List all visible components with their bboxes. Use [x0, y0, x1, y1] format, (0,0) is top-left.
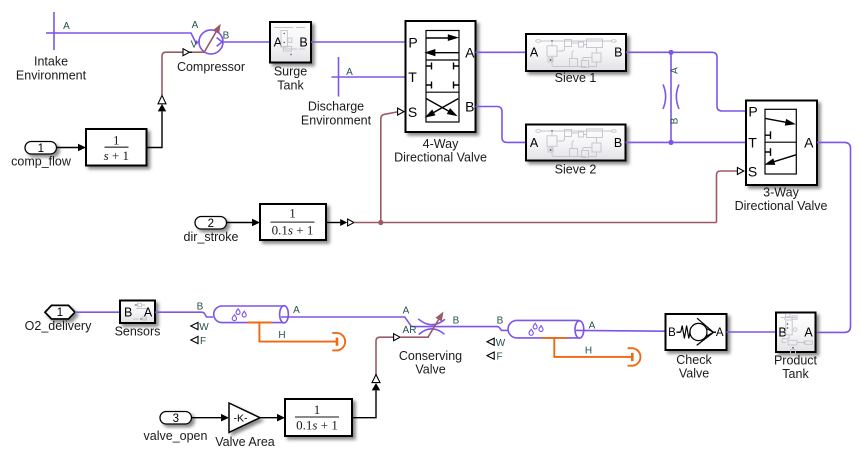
svg-text:1: 1: [57, 307, 63, 319]
thermal wire pipe 2 H: [542, 338, 632, 357]
svg-text:T: T: [408, 69, 417, 85]
conserving valve (variable orifice): [412, 312, 498, 338]
port W of pipe 1: [191, 322, 209, 333]
sieve 2 preview sketch: [536, 129, 617, 158]
port triangle on stroke signal: [348, 219, 354, 226]
svg-text:A: A: [403, 306, 410, 317]
port triangle at compressor V: [183, 49, 189, 56]
wire dir_stroke to transfer fcn: [227, 222, 254, 224]
orifice symbol on rail: [663, 85, 679, 110]
sieve 1 preview sketch: [536, 39, 617, 68]
product tank preview sketch: [781, 314, 813, 354]
inport 2 dir_stroke: [195, 217, 227, 231]
thermal cap 1: [332, 333, 345, 351]
gain Valve Area: [229, 403, 260, 432]
svg-text:1: 1: [314, 402, 321, 417]
wire Sensors A to pipe B: [155, 312, 213, 317]
svg-text:A: A: [192, 20, 199, 31]
wire discharge A to 4-way T: [332, 76, 406, 78]
port F of pipe 1: [191, 336, 206, 347]
svg-text:AR: AR: [403, 325, 417, 336]
svg-text:A: A: [804, 135, 814, 151]
port W of pipe 2: [487, 338, 506, 349]
svg-text:Surge: Surge: [274, 65, 307, 79]
wire gain to transfer fcn: [260, 417, 279, 419]
wire 3-way A to Product Tank A: [816, 142, 851, 332]
junction dot: [378, 220, 383, 225]
svg-text:Compressor: Compressor: [177, 60, 245, 74]
junction dot sieve2: [668, 140, 673, 145]
svg-text:B: B: [453, 316, 460, 327]
wire compressor B to Surge Tank A: [222, 41, 270, 43]
svg-text:3: 3: [173, 413, 179, 425]
wire comp_flow to transfer fcn: [57, 147, 80, 149]
compressor U? (Compressor): [177, 30, 245, 74]
svg-text:Tank: Tank: [782, 367, 809, 381]
wire stub into compressor: [192, 51, 205, 53]
svg-text:S: S: [748, 164, 757, 180]
svg-text:A: A: [144, 305, 153, 319]
svg-text:4-Way: 4-Way: [423, 137, 459, 151]
svg-text:dir_stroke: dir_stroke: [184, 230, 239, 244]
inport 1 comp_flow: [25, 142, 57, 156]
block Sensors: [120, 301, 155, 324]
svg-text:3-Way: 3-Way: [763, 186, 799, 200]
svg-text:A: A: [670, 67, 681, 74]
svg-text:A: A: [293, 305, 300, 316]
svg-text:Valve: Valve: [679, 367, 709, 381]
svg-text:Discharge: Discharge: [308, 100, 364, 114]
svg-text:Directional Valve: Directional Valve: [735, 199, 828, 213]
svg-text:B: B: [614, 46, 622, 60]
wire valve_open to gain: [192, 417, 223, 419]
svg-text:2: 2: [208, 218, 214, 230]
pipe 2 (moist air pipe): [508, 320, 584, 338]
reservoir Intake Environment: [16, 12, 87, 82]
wire transfer fcn to PS converter: [326, 222, 341, 224]
svg-text:Sieve 2: Sieve 2: [555, 163, 597, 177]
actuator arrow through compressor: [204, 24, 221, 53]
svg-text:comp_flow: comp_flow: [11, 155, 72, 169]
wire O2_delivery to Sensors B: [75, 311, 120, 313]
svg-text:1: 1: [289, 206, 296, 221]
svg-text:Product: Product: [774, 354, 818, 368]
block Check Valve: [666, 314, 727, 350]
transfer fcn (1/(0.1s+1)) lower: [285, 399, 352, 436]
pipe 1 (moist air pipe): [214, 306, 289, 323]
wire intake A to compressor: [60, 33, 200, 44]
wire 4-way B to Sieve 2 A: [476, 107, 527, 143]
svg-text:V: V: [191, 40, 198, 51]
svg-text:B: B: [124, 305, 132, 319]
wire pipe 2 A to Check Valve B: [576, 329, 666, 332]
outport 1 O2_delivery: [45, 305, 75, 319]
svg-text:B: B: [299, 36, 307, 50]
transfer fcn (1/(0.1s+1)) upper: [260, 204, 326, 240]
svg-text:Valve: Valve: [415, 363, 445, 377]
svg-text:Environment: Environment: [16, 68, 87, 82]
svg-text:s + 1: s + 1: [104, 148, 129, 163]
svg-text:B: B: [197, 302, 204, 313]
thermal wire pipe 1 H: [247, 323, 336, 342]
wire pipe 1 A to conserving valve A: [281, 317, 412, 327]
wire Surge Tank B to 4-way P: [311, 41, 406, 43]
svg-text:B: B: [614, 136, 622, 150]
wire transfer fcn to PS converter: [147, 112, 163, 148]
svg-text:valve_open: valve_open: [144, 429, 208, 443]
wire stub AR: [400, 336, 429, 338]
sensors preview sketch: [133, 303, 147, 320]
svg-text:1: 1: [113, 133, 120, 148]
svg-text:B: B: [223, 31, 230, 42]
svg-text:-K-: -K-: [234, 412, 249, 424]
physical signal wire dir stroke bus: [354, 222, 717, 224]
svg-text:A: A: [530, 46, 539, 60]
thermal cap 2: [628, 348, 641, 366]
port triangle at 3-way S: [737, 168, 743, 175]
wire Sieve 1 B to 3-way P: [626, 52, 746, 111]
svg-text:Sensors: Sensors: [115, 325, 161, 339]
svg-text:Conserving: Conserving: [399, 349, 462, 363]
svg-text:O2_delivery: O2_delivery: [25, 319, 92, 333]
svg-text:F: F: [496, 352, 502, 363]
port triangle on riser: [158, 95, 166, 103]
svg-text:B: B: [670, 117, 681, 124]
svg-text:A: A: [530, 136, 539, 150]
reservoir Discharge Environment: [301, 57, 372, 127]
wire cross-bleed rail between sieves: [670, 52, 672, 142]
surge tank preview sketch: [274, 28, 305, 56]
svg-text:Valve Area: Valve Area: [215, 435, 275, 449]
port F of pipe 2: [487, 352, 503, 363]
physical signal wire to 4-way S: [381, 112, 398, 223]
svg-text:A: A: [804, 326, 813, 340]
svg-text:0.1s + 1: 0.1s + 1: [296, 418, 338, 433]
physical signal wire to 3-way S: [717, 171, 738, 223]
svg-text:H: H: [278, 330, 285, 341]
junction dot sieve1: [668, 50, 673, 55]
block Surge Tank: [270, 22, 311, 63]
svg-text:T: T: [748, 135, 757, 151]
svg-text:F: F: [200, 336, 206, 347]
physical signal wire to conserving valve AR: [376, 337, 393, 375]
svg-text:Tank: Tank: [277, 78, 304, 92]
block Sieve 2: [526, 125, 626, 161]
port triangle at 4-way S: [398, 108, 404, 115]
svg-text:1: 1: [38, 143, 44, 155]
svg-text:W: W: [199, 322, 209, 333]
svg-text:H: H: [585, 346, 592, 357]
svg-text:A: A: [716, 327, 724, 339]
physical signal wire to compressor V: [162, 52, 183, 95]
transfer fcn (1/(s+1)): [86, 129, 147, 166]
svg-text:A: A: [63, 21, 70, 32]
svg-text:Directional Valve: Directional Valve: [394, 151, 487, 165]
block Sieve 1: [526, 34, 626, 71]
valve U? (3-Way Directional Valve): [746, 101, 817, 186]
svg-text:A: A: [465, 45, 475, 61]
svg-text:S: S: [408, 104, 417, 120]
svg-text:P: P: [408, 35, 417, 51]
port triangle on valve riser: [372, 375, 380, 383]
block Product Tank: [776, 313, 816, 353]
wire conserving valve B to pipe 2 B: [497, 327, 510, 331]
svg-text:Environment: Environment: [301, 113, 372, 127]
svg-text:B: B: [465, 99, 474, 115]
valve U? (4-Way Directional Valve): [406, 21, 476, 132]
svg-text:0.1s + 1: 0.1s + 1: [272, 223, 314, 238]
wire 4-way A to Sieve 1 A: [476, 51, 527, 53]
svg-text:B: B: [497, 316, 504, 327]
svg-text:Check: Check: [676, 353, 712, 367]
svg-text:P: P: [748, 104, 757, 120]
svg-text:Intake: Intake: [34, 55, 68, 69]
inport 3 valve_open: [160, 412, 192, 426]
wire transfer fcn to PS converter riser: [352, 391, 376, 418]
port triangle at AR: [394, 334, 400, 341]
wire Sieve 2 B to 3-way T: [626, 141, 747, 143]
wire Check Valve A to Product Tank B: [727, 331, 777, 333]
svg-text:Sieve 1: Sieve 1: [555, 71, 597, 85]
svg-text:W: W: [496, 338, 506, 349]
svg-text:B: B: [668, 327, 676, 339]
